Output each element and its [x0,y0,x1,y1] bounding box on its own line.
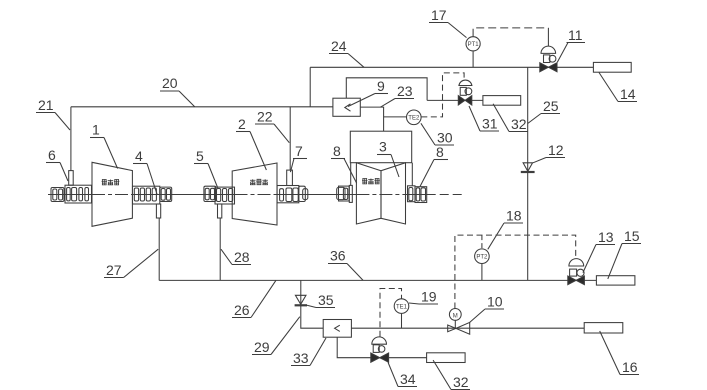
turbine LP 3 [356,163,405,224]
svg-text:19: 19 [421,289,437,305]
wire crossover left leg [350,163,352,186]
label 7 [290,143,307,172]
sensor TE2 [407,110,422,125]
wire dashed PT1 loop [473,28,548,37]
control valve 34 [371,337,389,362]
label 32 top [493,104,528,132]
svg-text:6: 6 [48,147,56,163]
bearing group left of LP [337,185,353,202]
motor M [449,309,461,321]
wire valve35 branch [301,280,323,328]
label LP text 低压缸 [362,179,380,184]
svg-text:33: 33 [293,350,309,366]
sensor 5 probe [218,204,222,218]
label 23 [381,83,415,107]
bearing group left end [51,185,92,203]
wire TE1 stem [401,314,403,329]
wire dashed PT2 stem [481,235,483,248]
svg-text:2: 2 [238,116,246,132]
label 21 [36,97,70,130]
svg-text:3: 3 [379,139,387,155]
label 25 [528,98,560,124]
label 20 [160,75,195,107]
svg-text:26: 26 [234,302,250,318]
svg-text:4: 4 [135,148,143,164]
svg-text:15: 15 [624,228,640,244]
label 22 [255,109,289,143]
svg-text:32: 32 [453,374,469,390]
svg-text:23: 23 [397,83,413,99]
wire dashed PT2 loop top [455,235,576,308]
wire line 22 vertical [289,107,291,170]
shaft centerline dash-dot inside MP [235,194,278,196]
label HP text 高压缸 [102,180,120,185]
check valve 12 [521,163,535,172]
svg-text:1: 1 [92,122,100,138]
svg-text:14: 14 [620,86,636,102]
label 5 [194,148,218,188]
label 1 [90,122,118,169]
label 16 [600,331,639,375]
connector rect 15 [596,276,635,285]
box 9 fast valve [333,98,360,116]
connector rect 16 [584,323,623,333]
svg-text:10: 10 [487,294,503,310]
wire crossover right leg [411,163,413,186]
wire box33 outlet to rect16 [351,327,584,329]
sensor 6 probe [69,171,74,186]
wire PT1 stem [472,51,474,68]
turbine HP 1 [92,162,132,226]
svg-text:25: 25 [543,98,559,114]
wire TE2 stem [384,116,407,118]
label 30 [421,123,454,145]
wire dashed TE2 loop [421,73,464,117]
svg-text:20: 20 [162,75,178,91]
svg-text:TE2: TE2 [408,116,420,122]
control valve 13 [568,259,585,285]
wire riser 20-24 [309,67,311,107]
label 28 [221,249,251,265]
label 34 [388,363,417,388]
label 29 [252,317,300,355]
wire box9 outlet [360,107,383,131]
wire M stem [454,320,456,328]
box 33 fast valve [323,320,351,338]
label 2 [236,116,266,170]
label 4 [133,148,157,195]
svg-text:27: 27 [106,262,122,278]
label 9 [348,78,388,107]
control valve 11 [540,46,557,72]
gate valve 10 [448,322,470,334]
label 26 [232,280,276,318]
wire line 27 vertical [158,218,160,280]
connector rect 14 [593,62,631,72]
sensor 4 probe [156,204,160,218]
svg-text:9: 9 [377,78,385,94]
label 11 [557,27,585,62]
sensor 7 probe [287,170,293,185]
svg-text:28: 28 [234,249,250,265]
shaft centerline solid segments [48,194,427,196]
connector rect 32 top [483,96,521,106]
label 18 [488,208,523,250]
label 31 [469,106,499,132]
label 17 [429,7,467,38]
svg-text:21: 21 [38,97,54,113]
label 6 [46,147,68,181]
turbine MP 2 [232,163,277,225]
svg-text:16: 16 [622,359,638,375]
connector rect 32 bottom [427,353,466,363]
check valve 35 [295,295,307,305]
label 3 [377,139,399,178]
label 19 [409,289,438,305]
shaft centerline tail [427,194,463,196]
wire line 25 vertical [527,67,529,280]
label 12 [533,142,565,163]
svg-text:29: 29 [254,339,270,355]
svg-text:18: 18 [506,208,522,224]
svg-text:8: 8 [333,143,341,159]
label 8 left [331,143,357,183]
svg-text:32: 32 [511,116,527,132]
sensor PT2 [475,249,490,264]
label 35 [307,292,335,308]
shaft centerline dash-dot inside LP [356,194,405,196]
svg-text:35: 35 [318,292,334,308]
bearing group left of MP [204,186,235,204]
wire line 20 horizontal [71,106,333,108]
label 10 [470,294,504,323]
label 15 [608,228,641,279]
svg-text:13: 13 [598,229,614,245]
label 8 right [420,144,448,187]
svg-text:8: 8 [436,144,444,160]
wire line 21 vertical [70,107,72,171]
svg-text:PT2: PT2 [476,254,488,260]
svg-text:PT1: PT1 [468,42,480,48]
label 14 [599,73,637,103]
sensor TE1 [394,299,409,314]
wire valve31 inlet [427,99,483,101]
wire PT2 stem [481,263,483,280]
label 13 [583,229,615,273]
wire line 24 horizontal top [310,66,593,68]
svg-text:24: 24 [331,38,347,54]
svg-text:7: 7 [295,143,303,159]
label 36 [328,248,363,281]
svg-text:17: 17 [431,7,447,23]
svg-text:5: 5 [196,148,204,164]
svg-text:11: 11 [568,27,583,43]
svg-text:12: 12 [548,142,564,158]
svg-text:31: 31 [482,116,498,132]
bearing group right of HP [133,186,172,204]
wire box9 top loop [346,78,427,101]
wire line 28 vertical [219,218,221,280]
label 32 bottom [433,360,470,390]
label MP text 中压缸 [250,179,268,184]
sensor PT1 [466,37,480,51]
wire valve11 drop [547,28,549,47]
svg-text:34: 34 [400,371,416,387]
svg-text:M: M [453,313,458,319]
label 33 [291,338,326,366]
bearing group right of LP [408,186,427,203]
wire lower main line 26/36 [159,279,596,281]
control valve 31 [458,80,472,105]
wire box33 bottom drop [337,337,426,358]
wire dashed TE1 loop [380,289,402,337]
crossover box above LP [350,131,411,163]
svg-text:TE1: TE1 [396,304,408,310]
label 27 [104,249,158,278]
svg-text:36: 36 [330,248,346,264]
svg-text:22: 22 [257,109,273,125]
shaft centerline dash-dot inside HP [92,194,133,196]
bearing group right of MP [277,186,308,203]
label 24 [329,38,364,67]
